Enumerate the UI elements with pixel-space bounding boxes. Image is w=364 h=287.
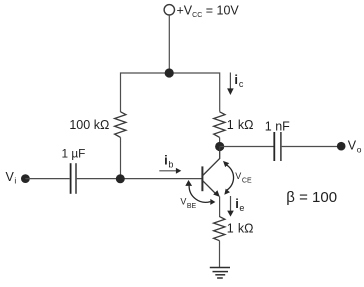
svg-text:1 µF: 1 µF (62, 147, 86, 161)
current arrow ib (159, 168, 181, 174)
capacitor C2 1nF (274, 132, 281, 161)
wire C1 to base (77, 178, 202, 180)
base bar (201, 166, 203, 191)
svg-text:1kΩ: 1kΩ (227, 118, 254, 132)
svg-text:i: i (164, 152, 168, 167)
wire Vi to C1 (25, 178, 69, 180)
svg-text:e: e (239, 203, 244, 213)
wire R3 to ground (219, 241, 221, 268)
node base junction (116, 174, 125, 183)
wire R1 bottom (120, 137, 122, 178)
Vcc terminal (164, 5, 174, 15)
resistor R1 100k (115, 112, 126, 138)
current arrow ie (227, 196, 234, 217)
node Vcc junction (165, 68, 174, 77)
wire Vcc vertical (168, 15, 170, 73)
wire collector to C2 (220, 146, 274, 148)
wire emitter vertical (219, 197, 221, 218)
emitter lead (203, 181, 216, 194)
svg-text:V: V (180, 196, 186, 206)
svg-text:V: V (235, 171, 241, 181)
svg-text:o: o (357, 145, 362, 155)
svg-text:β = 100: β = 100 (286, 189, 337, 206)
svg-text:+VCC = 10V: +VCC = 10V (177, 4, 240, 20)
svg-text:i: i (14, 176, 16, 186)
emitter arrowhead (213, 190, 220, 197)
node collector junction (215, 142, 224, 151)
svg-text:i: i (234, 72, 238, 87)
capacitor C1 1uF (71, 163, 76, 194)
transistor Q1 (202, 147, 220, 198)
wire top bus (121, 73, 220, 112)
svg-text:b: b (168, 159, 173, 169)
resistor R2 1k collector (214, 112, 225, 138)
arrow Vce arc (223, 161, 234, 195)
svg-text:V: V (6, 170, 15, 184)
svg-text:i: i (235, 196, 239, 211)
arrow Vbe arc (185, 180, 215, 205)
svg-text:1kΩ: 1kΩ (227, 221, 254, 235)
node Vi terminal (21, 174, 30, 183)
svg-text:V: V (348, 139, 357, 153)
svg-text:100 kΩ: 100 kΩ (69, 118, 109, 132)
svg-text:CE: CE (242, 178, 252, 185)
svg-text:BE: BE (187, 203, 197, 210)
svg-text:c: c (239, 79, 244, 89)
ground (210, 268, 230, 279)
current arrow ic (227, 73, 234, 96)
node Vo terminal (337, 142, 346, 151)
svg-text:1 nF: 1 nF (265, 119, 290, 133)
resistor R3 1k emitter (214, 217, 225, 241)
collector lead (203, 147, 220, 176)
wire R2 bottom (219, 137, 221, 146)
wire C2 to Vo (282, 146, 338, 148)
